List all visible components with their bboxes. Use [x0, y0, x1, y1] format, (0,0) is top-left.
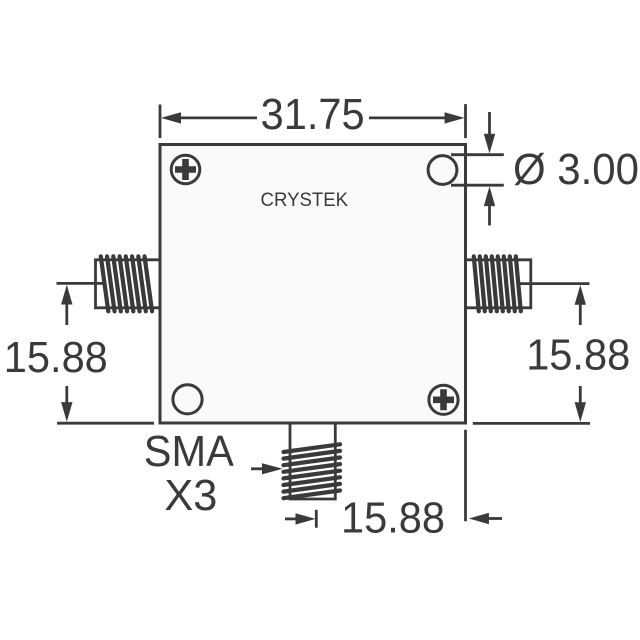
device body outline — [160, 145, 466, 424]
svg-text:CRYSTEK: CRYSTEK — [261, 190, 349, 211]
svg-text:15.88: 15.88 — [341, 494, 445, 543]
dim 15.88 left upper arrowhead — [61, 285, 72, 305]
dim 15.88 left lower extension line — [57, 422, 154, 425]
connector bottom SMA bracket — [290, 425, 335, 500]
dim 15.88 bottom left arrow shaft — [285, 518, 298, 521]
body right edge extension line (vertical, below body) — [464, 430, 467, 522]
dim 31.75 line left segment — [178, 117, 257, 120]
svg-text:15.88: 15.88 — [4, 333, 108, 382]
connector left SMA bracket — [96, 260, 160, 308]
dia 3.00 upper arrowhead — [484, 134, 495, 154]
dim 15.88 left upper arrow shaft — [65, 302, 68, 325]
hole top-right — [428, 156, 457, 185]
screw top-left (phillips) — [171, 155, 200, 184]
dim 15.88 right lower arrowhead — [575, 402, 586, 422]
dim 15.88 right lower extension line — [473, 422, 590, 425]
connector left SMA threads — [101, 256, 152, 311]
svg-text:Ø 3.00: Ø 3.00 — [513, 145, 639, 194]
dia 3.00 lower arrowhead — [484, 186, 495, 206]
dim 15.88 right upper extension line — [517, 282, 590, 285]
dim 15.88 right upper arrow shaft — [579, 302, 582, 325]
connector right SMA bracket — [466, 260, 531, 308]
dim 15.88 left upper extension line — [57, 282, 105, 285]
screw bottom-right (phillips) — [429, 385, 458, 414]
dim 15.88 left lower arrow shaft — [65, 386, 68, 404]
dia 3.00 tangent line top — [451, 153, 504, 156]
dim 31.75 arrow right — [445, 112, 465, 123]
dim 15.88 bottom tick at connector center — [315, 510, 318, 528]
svg-text:31.75: 31.75 — [261, 90, 365, 139]
label SMA arrow shaft — [251, 467, 264, 470]
dia 3.00 upper arrow shaft — [488, 112, 491, 136]
connector bottom SMA threads — [284, 444, 341, 498]
dia 3.00 lower arrow shaft — [488, 204, 491, 225]
svg-text:15.88: 15.88 — [526, 330, 630, 379]
dim 31.75 line right segment — [369, 117, 448, 120]
svg-text:X3: X3 — [164, 471, 217, 520]
dim 31.75 extension line right — [464, 104, 467, 138]
dim 15.88 right lower arrow shaft — [579, 386, 582, 404]
svg-text:SMA: SMA — [144, 427, 235, 476]
dim 31.75 extension line left — [159, 105, 162, 139]
dim 15.88 right upper arrowhead — [575, 285, 586, 305]
dim 31.75 arrow left — [161, 112, 181, 123]
dia 3.00 tangent line bottom — [451, 184, 504, 187]
dim 15.88 bottom right arrowhead — [469, 513, 489, 524]
dim 15.88 left lower arrowhead — [61, 402, 72, 422]
dim 15.88 bottom right arrow shaft — [486, 517, 502, 520]
hole bottom-left — [173, 385, 202, 414]
label SMA arrowhead — [262, 463, 283, 474]
connector right SMA threads — [474, 256, 521, 311]
dim 15.88 bottom left arrowhead — [296, 513, 316, 524]
